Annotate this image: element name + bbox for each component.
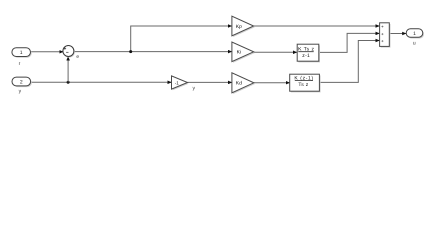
gain Kd: [232, 73, 255, 94]
node junction e-branch: [129, 50, 132, 53]
svg-text:z-1: z-1: [302, 53, 310, 59]
wire add to output port: [389, 33, 406, 35]
derivative block K (z-1) / Ts z: [290, 74, 321, 92]
node junction y-branch: [67, 81, 70, 84]
wire sum output to Ki: [74, 51, 232, 53]
svg-text:-1: -1: [175, 80, 180, 85]
gain -1: [172, 76, 189, 90]
wire Kd to derivative: [254, 82, 290, 84]
wire branch up to Kp: [131, 26, 232, 52]
svg-text:1: 1: [20, 50, 23, 56]
svg-text:2: 2: [20, 79, 23, 85]
svg-text:y: y: [19, 89, 22, 95]
svg-text:+: +: [381, 24, 384, 29]
wire branch up to sum bottom: [67, 57, 69, 83]
svg-text:y: y: [193, 85, 196, 91]
svg-text:u: u: [413, 40, 416, 46]
wire input1 to sum: [31, 51, 64, 53]
integrator block K Ts z / z-1: [297, 44, 320, 62]
wire integrator to add input2: [319, 33, 380, 52]
wire -1 to Kd: [188, 81, 232, 83]
svg-text:Kp: Kp: [236, 24, 242, 30]
wire derivative to add input3: [319, 41, 379, 83]
svg-text:r: r: [19, 61, 21, 67]
output port 1 (u): [406, 29, 424, 39]
gain Kp: [232, 16, 255, 37]
svg-text:+: +: [381, 31, 384, 36]
gain Ki: [232, 42, 255, 63]
wire Ki to integrator: [254, 51, 297, 53]
input port 1 (r): [12, 48, 32, 58]
svg-text:1: 1: [413, 31, 416, 37]
svg-text:Ki: Ki: [237, 50, 241, 56]
svg-text:e: e: [76, 54, 79, 60]
wire input2 to -1 gain: [31, 81, 172, 83]
svg-text:Ts z: Ts z: [298, 82, 308, 88]
svg-text:+: +: [381, 38, 384, 43]
add block U1: [380, 23, 391, 48]
svg-text:Kd: Kd: [236, 81, 242, 87]
sum S1: [63, 46, 75, 58]
wire Kp to add input1: [254, 25, 380, 27]
input port 2 (y): [12, 77, 32, 87]
